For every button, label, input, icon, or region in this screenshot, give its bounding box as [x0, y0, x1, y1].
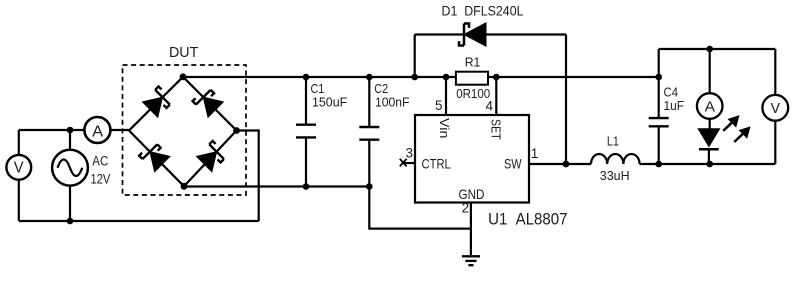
DUT dashed box — [123, 65, 247, 195]
wire: CTRL pin stub — [404, 162, 416, 164]
inductor L1 coil — [591, 154, 640, 164]
label: C1 150uF — [311, 81, 348, 110]
wire: right vertical of AC loop up to bridge right node — [237, 131, 259, 222]
svg-text:SW: SW — [504, 156, 522, 172]
wire: SET pin stub — [495, 77, 497, 115]
ammeter A (right) — [697, 93, 723, 119]
IC U1 box (AL8807) — [415, 115, 529, 203]
svg-text:4: 4 — [485, 99, 493, 114]
node: C2 bottom junction — [366, 183, 373, 190]
wire: left loop left vertical through V meter — [18, 130, 20, 221]
node: C4 bottom junction — [655, 161, 662, 168]
svg-text:100nF: 100nF — [375, 95, 410, 110]
wire: main top rail from bridge top node to right section — [183, 76, 659, 78]
svg-text:V: V — [14, 159, 24, 176]
node: LED bottom junction — [706, 161, 713, 168]
wire: Vin pin stub — [445, 77, 447, 115]
capacitor C1 — [296, 77, 316, 187]
wire: bridge edge top-right — [183, 77, 237, 131]
wire: SW pin stub to L1 — [529, 163, 591, 165]
wire: top right measurement rail — [659, 48, 776, 50]
svg-text:A: A — [92, 123, 103, 140]
label: AC 12V — [91, 154, 111, 187]
no-connect X on CTRL pin — [400, 159, 407, 167]
wire: ground rail drop from C2 to U1 GND pin — [369, 187, 471, 229]
wire: mid ground rail from bridge bottom node to C2 — [184, 185, 369, 187]
node: C1 top junction — [303, 74, 310, 81]
svg-text:R1: R1 — [465, 55, 481, 70]
node: SET junction on top rail — [493, 74, 500, 81]
wire: C4 branch vertical (top corner to plates) — [658, 49, 660, 118]
svg-text:V: V — [771, 100, 780, 117]
svg-text:1: 1 — [531, 146, 539, 161]
capacitor C4 — [649, 118, 669, 164]
label: C2 100nF — [374, 81, 409, 110]
diode bridge bottom-right (schottky, points to right node) — [197, 141, 228, 172]
ground symbol — [462, 256, 480, 265]
wire: bridge edge left-top — [129, 77, 183, 131]
node: Vin junction on top rail — [443, 74, 450, 81]
wire: voltmeter branch top — [774, 49, 776, 96]
svg-text:5: 5 — [435, 98, 443, 113]
svg-text:D1 DFLS240L: D1 DFLS240L — [442, 4, 524, 19]
svg-text:A: A — [705, 99, 715, 116]
svg-text:3: 3 — [405, 145, 413, 160]
wire: D1 left leg — [414, 35, 416, 78]
node: AC top junction — [67, 127, 74, 134]
voltmeter V (left) — [6, 155, 31, 180]
resistor R1 box — [456, 72, 488, 85]
svg-text:12V: 12V — [91, 172, 111, 187]
AC source circle — [52, 150, 88, 186]
wire: D1 right leg down to SW line — [565, 35, 567, 165]
wire: ammeter to LED — [709, 119, 711, 129]
node: D1 left junction on top rail — [411, 74, 418, 81]
wire: bridge edge left-bottom — [129, 131, 184, 187]
node: C2 top junction — [366, 74, 373, 81]
diode bridge top-right (schottky, points to top node) — [192, 86, 223, 117]
node: bridge bottom node — [181, 183, 188, 190]
LED — [698, 129, 719, 164]
ammeter A (left) — [84, 117, 110, 143]
svg-text:L1: L1 — [607, 135, 619, 149]
wire: L1 output to load bottom rail — [640, 163, 776, 165]
voltmeter V (right) — [762, 95, 788, 121]
node: AC bottom junction — [67, 218, 74, 225]
svg-text:33uH: 33uH — [600, 168, 630, 183]
svg-text:DUT: DUT — [169, 44, 198, 61]
svg-text:CTRL: CTRL — [422, 156, 451, 172]
svg-text:1uF: 1uF — [664, 98, 685, 113]
wire: voltmeter branch bottom — [774, 121, 776, 164]
diode D1 schottky (points left) — [459, 23, 486, 46]
wire: AC source branch vertical — [69, 130, 71, 221]
svg-text:U1 AL8807: U1 AL8807 — [488, 209, 567, 228]
wire: left loop bottom rail — [19, 220, 259, 222]
LED emission arrows — [723, 116, 750, 142]
svg-text:Vin: Vin — [437, 118, 452, 138]
node: C1 bottom junction — [303, 183, 310, 190]
node: C4 top rail junction (main rail tee) — [655, 74, 662, 81]
diode bridge top-left (schottky, points to top node) — [142, 86, 173, 117]
wire: bridge edge bottom-right — [184, 131, 237, 187]
svg-text:2: 2 — [462, 201, 470, 216]
wire: D1 top horizontal — [415, 33, 566, 35]
node: D1 right junction on SW line — [563, 161, 570, 168]
svg-text:SET: SET — [489, 119, 504, 140]
wire: GND pin stub down to ground — [470, 203, 472, 256]
node: LED branch top junction — [706, 46, 713, 53]
node: bridge top node — [180, 73, 187, 80]
label: C4 1uF — [664, 85, 685, 114]
svg-text:150uF: 150uF — [312, 95, 347, 110]
wire: ammeter branch top — [709, 49, 711, 94]
node: bridge right node — [233, 127, 240, 134]
diode bridge bottom-left (schottky, points to left node) — [139, 141, 170, 172]
capacitor C2 — [359, 77, 379, 187]
wire: left loop top rail from V meter to bridge left node — [19, 129, 129, 131]
svg-text:AC: AC — [92, 154, 108, 169]
